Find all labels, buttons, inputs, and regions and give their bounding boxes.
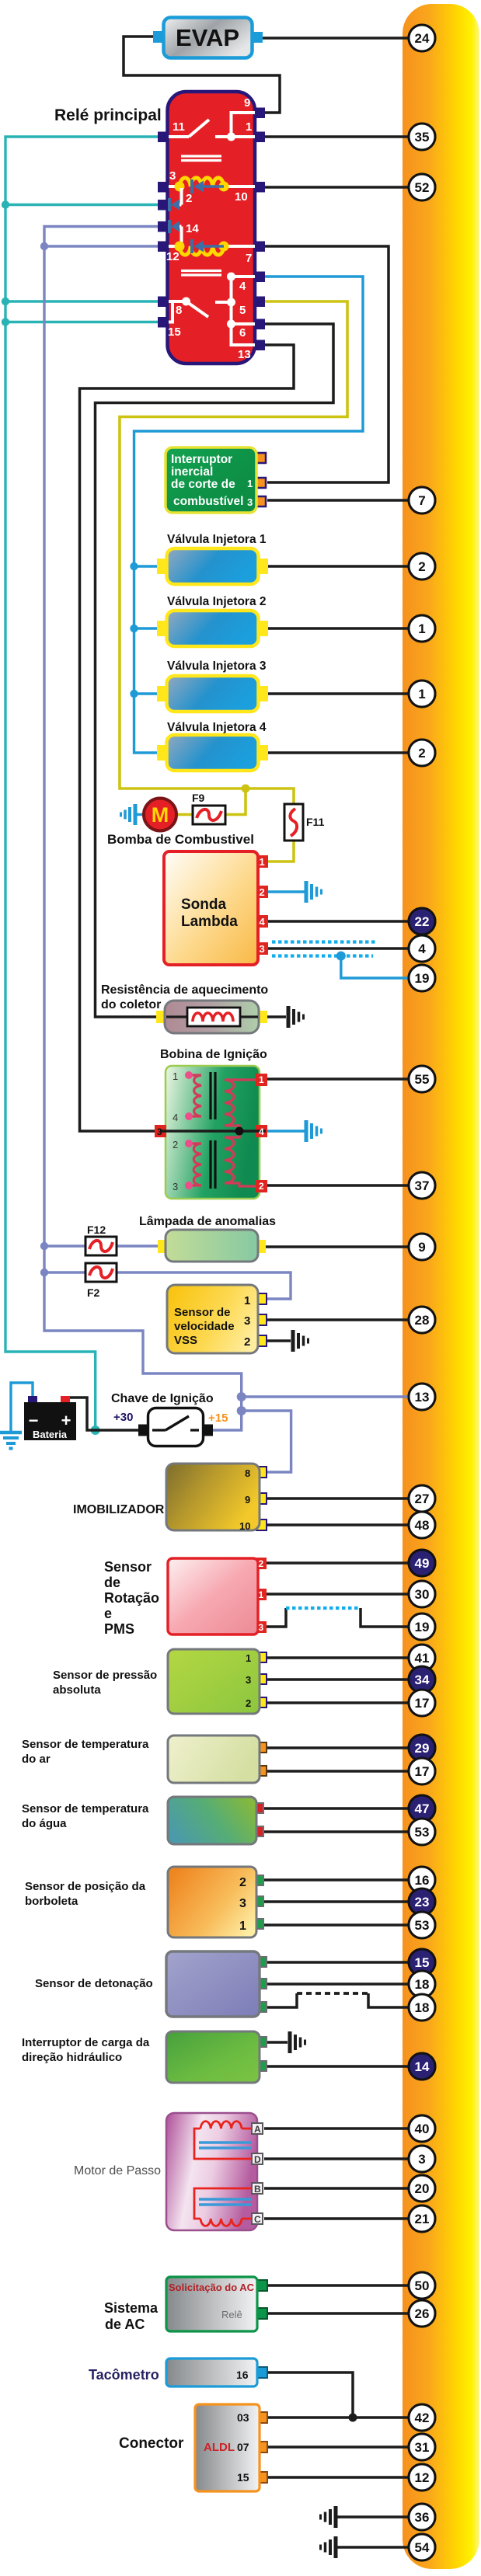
relay internal switch top [169, 113, 255, 141]
svg-text:52: 52 [415, 180, 430, 195]
svg-text:D: D [254, 2154, 261, 2165]
ECU pin 24 [409, 25, 435, 51]
wire rotation sensor pin 3 shield to ECU pin 19 [264, 1608, 286, 1627]
svg-text:Motor de Passo: Motor de Passo [74, 2164, 161, 2177]
svg-text:4: 4 [259, 1126, 264, 1137]
svg-text:Sensor de: Sensor de [174, 1306, 231, 1319]
svg-text:3: 3 [239, 1897, 246, 1910]
shield dashed line lower [272, 954, 373, 957]
ground sonda pin 2 [306, 881, 322, 903]
svg-text:inercial: inercial [171, 465, 213, 479]
ECU pin 1 [409, 681, 435, 707]
relay U1 main body [168, 92, 256, 364]
svg-text:15: 15 [237, 2471, 249, 2484]
svg-text:+15: +15 [208, 1412, 228, 1425]
svg-text:12: 12 [415, 2470, 430, 2485]
relay coil 1 core [181, 156, 221, 161]
wire relay pin 5 fuel feed (yellow) [120, 301, 347, 804]
ECU pin 34 [409, 1666, 435, 1693]
transformer 1 primary [189, 1075, 201, 1116]
ECU pin 20 [409, 2175, 435, 2202]
ECU pin 7 [409, 487, 435, 513]
wire coil pin 4 to ground [267, 1130, 305, 1132]
svg-text:53: 53 [415, 1918, 430, 1933]
ground battery [0, 1432, 22, 1449]
svg-text:18: 18 [415, 2000, 430, 2015]
ECU pin 1 [409, 615, 435, 642]
svg-text:Bateria: Bateria [33, 1429, 68, 1440]
svg-text:8: 8 [245, 1467, 250, 1479]
ECU pin 2 [409, 553, 435, 580]
svg-text:42: 42 [415, 2411, 430, 2425]
svg-text:Tacômetro: Tacômetro [89, 2367, 159, 2383]
svg-text:2: 2 [418, 746, 425, 761]
svg-text:17: 17 [415, 1764, 430, 1779]
wire AC relay to ECU pin 26 [267, 2312, 410, 2315]
ECU pin 54 [409, 2534, 435, 2560]
wire injector 3 to ECU pin 1 [267, 692, 410, 695]
svg-text:2: 2 [239, 1876, 246, 1889]
svg-text:3: 3 [247, 496, 253, 508]
ECU pin 29 [409, 1735, 435, 1761]
ignition switch (Chave) [138, 1408, 213, 1446]
ECU pin 19 [409, 965, 435, 991]
ECU pin 3 [409, 2146, 435, 2172]
svg-text:velocidade: velocidade [174, 1320, 235, 1333]
svg-text:3: 3 [259, 1622, 264, 1633]
junction teal at battery line [91, 1426, 100, 1435]
svg-text:4: 4 [260, 916, 266, 928]
ECU pin 18 [409, 1994, 435, 2021]
svg-text:2: 2 [173, 1139, 178, 1150]
wire AC request to ECU pin 50 [267, 2284, 410, 2287]
svg-text:de corte de: de corte de [171, 478, 235, 491]
ECU pin 36 [409, 2504, 435, 2530]
junction slate to relay pin 12 [40, 242, 48, 250]
wire VSS pin 2 to ground [264, 1339, 291, 1342]
wire relay pin 7 to inertia switch pin 1 [265, 246, 389, 482]
svg-text:41: 41 [415, 1651, 430, 1666]
svg-text:1: 1 [247, 478, 253, 489]
wire pressure sensor pin 2 to ECU pin 17 [266, 1701, 410, 1704]
svg-text:27: 27 [415, 1492, 430, 1506]
ground fuel pump [121, 804, 136, 825]
svg-text:35: 35 [415, 130, 430, 144]
wire relay pin 1 to ECU pin 35 [265, 135, 410, 138]
knock sensor [166, 1951, 267, 2017]
svg-text:Sensor: Sensor [104, 1559, 152, 1575]
ECU pin 37 [409, 1172, 435, 1199]
ECU pin 35 [409, 124, 435, 150]
ECU pin 53 [409, 1912, 435, 1938]
ECU pin 9 [409, 1234, 435, 1260]
ECU pin 20 [409, 2175, 435, 2202]
svg-text:3: 3 [173, 1181, 178, 1192]
svg-text:borboleta: borboleta [25, 1895, 78, 1908]
wire F2 to VSS pin 1 [117, 1272, 291, 1299]
wire steering switch to ECU pin 14 [266, 2065, 410, 2068]
svg-text:do ar: do ar [22, 1753, 51, 1766]
ECU pin 26 [409, 2300, 435, 2327]
svg-text:1: 1 [246, 120, 252, 134]
wire heater resistor to ground [266, 1015, 286, 1018]
junction tachometer ALDL [349, 2414, 357, 2422]
ECU pin 31 [409, 2434, 435, 2460]
ECU pin 17 [409, 1758, 435, 1784]
ECU pin 18 [409, 1994, 435, 2021]
svg-text:21: 21 [415, 2212, 430, 2226]
rotation and TDC sensor [168, 1558, 267, 1634]
svg-text:07: 07 [237, 2441, 249, 2453]
ECU pin 1 [409, 615, 435, 642]
junction shield to ECU pin 19 [336, 952, 346, 961]
ECU pin 21 [409, 2205, 435, 2232]
svg-text:3: 3 [260, 943, 265, 955]
wire EVAP to relay pin 9 [124, 37, 280, 113]
svg-text:PMS: PMS [104, 1621, 134, 1637]
junction injector 3 [130, 690, 138, 698]
relay coil 1 [169, 178, 255, 193]
ECU pin 41 [409, 1645, 435, 1671]
relay coil 2 [169, 239, 255, 255]
svg-text:31: 31 [415, 2440, 430, 2455]
ECU pin 23 [409, 1888, 435, 1915]
ECU pin 4 [409, 935, 435, 962]
svg-text:19: 19 [415, 971, 430, 986]
svg-text:3: 3 [418, 2152, 425, 2167]
stepper pin letters [254, 2124, 261, 2225]
relay internal switch bottom [169, 273, 255, 346]
junction fuel pump branch [242, 785, 250, 793]
ECU pin 47 [409, 1795, 435, 1822]
wire throttle sensor pin 1 to ECU pin 53 [263, 1923, 410, 1927]
ECU pin 2 [409, 740, 435, 766]
svg-text:de: de [104, 1575, 120, 1590]
ground heater resistor [288, 1006, 304, 1028]
coil pin number labels [173, 1070, 178, 1192]
svg-text:10: 10 [235, 190, 248, 204]
AC system box [166, 2277, 267, 2331]
svg-text:12: 12 [166, 250, 180, 263]
svg-text:Sistema: Sistema [104, 2300, 159, 2316]
ECU pin 40 [409, 2115, 435, 2142]
wire throttle sensor pin 3 to ECU pin 23 [263, 1900, 410, 1903]
junction coil center [235, 1127, 244, 1136]
wire water temp sensor to ECU pin 47 [263, 1807, 410, 1810]
relay coil 2 core [181, 271, 221, 276]
wire throttle sensor pin 2 to ECU pin 16 [263, 1878, 410, 1882]
ECU pin 47 [409, 1795, 435, 1822]
wire knock sensor to ECU pin 15 [266, 1961, 410, 1964]
ECU pin 53 [409, 1819, 435, 1845]
svg-text:1: 1 [418, 621, 425, 636]
ECU pin 9 [409, 1234, 435, 1260]
ECU pin 53 [409, 1819, 435, 1845]
svg-text:40: 40 [415, 2122, 430, 2136]
svg-text:2: 2 [260, 886, 265, 898]
wire injector 2 to ECU pin 1 [267, 627, 410, 630]
ECU pin 27 [409, 1485, 435, 1512]
svg-text:Bobina de Ignição: Bobina de Ignição [160, 1048, 267, 1061]
svg-text:F11: F11 [306, 816, 325, 828]
svg-text:15: 15 [415, 1955, 430, 1970]
wire relay pin 13 to ignition coil pin 3 [80, 345, 295, 1131]
ground VSS [293, 1330, 308, 1352]
transformer 2 core [211, 1140, 215, 1189]
svg-text:13: 13 [238, 348, 251, 361]
ECU pin 1 [409, 681, 435, 707]
svg-text:IMOBILIZADOR: IMOBILIZADOR [73, 1503, 165, 1516]
svg-text:Relé principal: Relé principal [54, 106, 162, 124]
heater resistor [156, 1001, 267, 1033]
svg-text:Relê: Relê [221, 2309, 242, 2320]
svg-text:8: 8 [176, 304, 182, 317]
svg-text:48: 48 [415, 1518, 430, 1533]
svg-text:4: 4 [173, 1112, 178, 1123]
svg-text:Sensor de temperatura: Sensor de temperatura [22, 1738, 149, 1751]
svg-text:11: 11 [173, 120, 185, 134]
wire relay pin 10 to ECU pin 52 [265, 186, 410, 189]
ECU pin 19 [409, 1613, 435, 1640]
svg-text:Rotação: Rotação [104, 1590, 159, 1606]
svg-text:6: 6 [239, 326, 246, 339]
svg-text:54: 54 [415, 2540, 430, 2555]
wire battery positive to ignition switch [67, 1398, 140, 1430]
svg-text:Válvula Injetora 2: Válvula Injetora 2 [167, 595, 267, 608]
ECU pin 16 [409, 1867, 435, 1893]
ground steering switch [290, 2031, 305, 2053]
fuel pump motor M [144, 799, 176, 831]
wire coil pin 2 to ECU pin 37 [267, 1184, 410, 1187]
svg-text:F12: F12 [87, 1224, 106, 1236]
ground chassis to ECU pin 36 [336, 2515, 410, 2519]
node +15 junction to immobilizer [237, 1406, 246, 1415]
wire ALDL 07 to ECU pin 31 [266, 2445, 410, 2449]
ECU pin 2 [409, 553, 435, 580]
wire lamp to ECU pin 9 [264, 1245, 410, 1248]
wire air temp sensor to ECU pin 17 [266, 1770, 410, 1773]
junction injector 2 [130, 625, 138, 632]
svg-text:19: 19 [415, 1620, 430, 1634]
ECU pin 52 [409, 174, 435, 200]
svg-text:36: 36 [415, 2510, 430, 2525]
svg-text:24: 24 [415, 31, 430, 46]
svg-text:Interruptor: Interruptor [171, 453, 232, 466]
throttle position sensor [168, 1867, 263, 1937]
ECU pin 2 [409, 740, 435, 766]
wire immobilizer pin 10 to ECU pin 48 [265, 1523, 410, 1526]
ECU pin 28 [409, 1307, 435, 1333]
svg-text:+: + [61, 1411, 71, 1430]
wire water temp sensor to ECU pin 53 [263, 1830, 410, 1833]
svg-text:Válvula Injetora 3: Válvula Injetora 3 [167, 660, 267, 673]
svg-text:2: 2 [418, 559, 425, 574]
lambda sensor (Sonda Lambda) [164, 851, 268, 965]
warning lamp [158, 1230, 266, 1262]
ECU pin 12 [409, 2464, 435, 2491]
svg-text:Sensor de posição da: Sensor de posição da [25, 1880, 146, 1893]
wire coil pin 1 to ECU pin 55 [267, 1077, 410, 1081]
relay pins left [158, 132, 169, 328]
ECU pin 37 [409, 1172, 435, 1199]
ECU pin 18 [409, 1971, 435, 1997]
injector valve 2 [157, 611, 268, 646]
ground ignition coil [306, 1120, 322, 1142]
svg-text:C: C [254, 2214, 261, 2225]
svg-text:e: e [104, 1606, 112, 1621]
svg-text:4: 4 [418, 942, 426, 956]
wire sonda pin 2 to ground [267, 890, 305, 893]
svg-text:F9: F9 [192, 792, 205, 804]
svg-text:1: 1 [173, 1070, 178, 1082]
fuse F11 [284, 804, 325, 841]
svg-text:2: 2 [244, 1335, 250, 1349]
junction teal to relay pin 8 [2, 298, 9, 305]
svg-text:Válvula Injetora 1: Válvula Injetora 1 [167, 533, 267, 546]
svg-text:14: 14 [415, 2059, 430, 2074]
ECU pin 55 [409, 1066, 435, 1092]
ECU pin 22 [409, 908, 435, 935]
fuse F12 [85, 1224, 117, 1255]
ECU pin 34 [409, 1666, 435, 1693]
ECU pin 19 [409, 1613, 435, 1640]
transformer 1 secondary [225, 1080, 256, 1131]
shield dashed line upper [272, 940, 377, 943]
svg-text:29: 29 [415, 1741, 430, 1756]
ECU pin 17 [409, 1690, 435, 1716]
svg-text:Lâmpada de anomalias: Lâmpada de anomalias [139, 1215, 276, 1228]
svg-text:50: 50 [415, 2278, 430, 2293]
wire steering switch to ground [266, 2041, 288, 2044]
node +15 junction to ECU pin 13 [237, 1392, 246, 1401]
inertia fuel cut-off switch [166, 447, 266, 513]
stepper winding 1 [194, 2122, 252, 2159]
relay pin 14 diode branch [169, 220, 182, 246]
svg-text:4: 4 [239, 280, 246, 293]
ECU pin 26 [409, 2300, 435, 2327]
ECU pin 36 [409, 2504, 435, 2530]
ECU pin 50 [409, 2272, 435, 2299]
wire ALDL 15 to ECU pin 12 [266, 2476, 410, 2479]
svg-text:VSS: VSS [174, 1334, 197, 1347]
ECU pin 19 [409, 965, 435, 991]
wire battery negative to ground [11, 1383, 33, 1431]
svg-text:03: 03 [237, 2411, 249, 2424]
svg-text:17: 17 [415, 1696, 430, 1711]
wire knock sensor to ECU pin 18 [266, 1982, 410, 1986]
svg-text:Conector: Conector [119, 2435, 184, 2452]
wire sonda pin 4 to ECU pin 22 [267, 920, 410, 923]
wire rotation sensor pin 1 to ECU pin 30 [264, 1593, 410, 1596]
ground chassis to ECU pin 54 [336, 2546, 410, 2549]
tachometer box [166, 2358, 267, 2386]
water temperature sensor [168, 1797, 263, 1844]
wire F11 to sonda pin 1 [267, 841, 294, 862]
svg-text:EVAP: EVAP [176, 24, 239, 51]
svg-text:Sensor de pressão: Sensor de pressão [53, 1669, 157, 1682]
svg-text:Sensor de detonação: Sensor de detonação [35, 1977, 153, 1990]
fuse F9 [192, 792, 225, 824]
svg-text:do coletor: do coletor [101, 998, 161, 1011]
svg-text:34: 34 [415, 1673, 430, 1687]
wire VSS pin 3 to ECU pin 28 [264, 1318, 410, 1321]
svg-text:3: 3 [244, 1314, 250, 1328]
svg-text:Bomba de Combustivel: Bomba de Combustivel [107, 832, 254, 847]
label rotation sensor [104, 1559, 159, 1637]
ECU pin 50 [409, 2272, 435, 2299]
svg-text:20: 20 [415, 2181, 430, 2196]
ECU pin 27 [409, 1485, 435, 1512]
svg-text:55: 55 [415, 1072, 430, 1087]
relay pin 2 diode branch [169, 188, 182, 211]
junction teal to relay pin 15 [2, 318, 9, 325]
svg-text:30: 30 [415, 1587, 430, 1602]
ECU pin 3 [409, 2146, 435, 2172]
svg-text:2: 2 [246, 1697, 251, 1709]
ECU pin 42 [409, 2404, 435, 2431]
ECU pin 17 [409, 1758, 435, 1784]
wire F12 to warning lamp [117, 1244, 161, 1247]
svg-text:47: 47 [415, 1801, 430, 1816]
svg-text:Resistência de aquecimento: Resistência de aquecimento [101, 983, 268, 997]
wire relay pin 4 to injector valves (blue feed) [134, 277, 364, 753]
ECU pin 48 [409, 1512, 435, 1538]
svg-text:9: 9 [245, 1494, 250, 1506]
svg-text:3: 3 [157, 1126, 162, 1137]
ECU pin 49 [409, 1550, 435, 1576]
wire stepper B to ECU pin 20 [264, 2187, 410, 2190]
svg-text:16: 16 [236, 2369, 249, 2381]
ECU pin 31 [409, 2434, 435, 2460]
ECU pin 12 [409, 2464, 435, 2491]
ECU pin 21 [409, 2205, 435, 2232]
ECU pin 35 [409, 124, 435, 150]
svg-text:9: 9 [418, 1240, 425, 1255]
wire pressure sensor pin 3 to ECU pin 34 [266, 1678, 410, 1681]
ECU pin 29 [409, 1735, 435, 1761]
ECU pin 13 [409, 1384, 435, 1410]
svg-text:M: M [152, 803, 169, 827]
wire tachometer joins ALDL 03 wire [267, 2372, 353, 2418]
svg-text:23: 23 [415, 1895, 430, 1909]
wire F9 to fuel pump [177, 813, 193, 816]
svg-text:A: A [254, 2124, 261, 2135]
wire sonda pin 3 to ECU pin 4 [267, 947, 410, 950]
wire rotation sensor pin 2 to ECU pin 49 [264, 1561, 410, 1565]
svg-text:5: 5 [239, 304, 246, 317]
svg-text:15: 15 [168, 325, 181, 339]
svg-text:combustível: combustível [173, 495, 243, 508]
svg-text:2: 2 [259, 1558, 264, 1569]
ECU pin 14 [409, 2053, 435, 2080]
svg-text:ALDL: ALDL [204, 2441, 235, 2454]
svg-text:Interruptor de carga da: Interruptor de carga da [22, 2036, 150, 2049]
svg-text:1: 1 [244, 1294, 250, 1307]
svg-text:1: 1 [259, 1589, 264, 1600]
svg-text:Lambda: Lambda [181, 914, 238, 930]
air temperature sensor [168, 1735, 267, 1783]
wire EVAP to ECU pin 24 [263, 37, 410, 40]
immobilizer box [166, 1464, 267, 1532]
svg-text:Sonda: Sonda [181, 896, 226, 913]
ECU pin 7 [409, 487, 435, 513]
battery [24, 1396, 76, 1440]
svg-text:direção hidráulico: direção hidráulico [22, 2051, 122, 2064]
transformer 1 core [211, 1072, 215, 1119]
wire relay pin 6 to heater resistor [96, 324, 334, 1017]
ECU pin 40 [409, 2115, 435, 2142]
svg-text:1: 1 [259, 1074, 264, 1085]
